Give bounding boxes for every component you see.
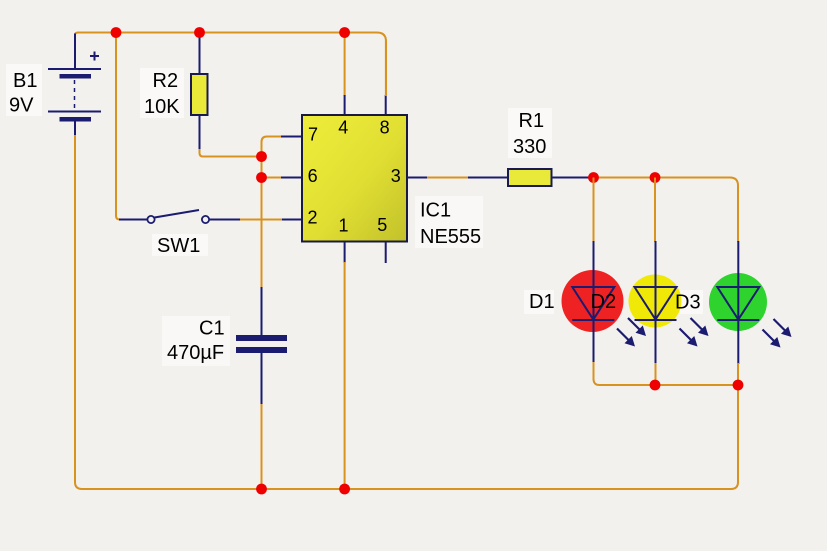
wire pin3 highlighted segment orange	[427, 177, 469, 179]
junction D3/LED rail	[733, 380, 744, 391]
capacitor plate bottom	[236, 347, 287, 353]
svg-text:C1: C1	[199, 318, 225, 340]
svg-text:R1: R1	[519, 110, 545, 132]
LED D1 diode triangle	[572, 287, 614, 320]
battery internal dashed line	[74, 80, 76, 110]
junction top rail / switch feed	[111, 27, 122, 38]
wire node column to pin7	[262, 137, 283, 159]
switch SW1	[119, 210, 302, 257]
switch pole circle	[147, 216, 154, 223]
svg-text:IC1: IC1	[420, 200, 451, 222]
LED D1 cathode bar	[572, 319, 614, 321]
resistor R1	[508, 110, 590, 186]
wire R2 bottom lead	[199, 115, 201, 150]
wire pin1 to bottom rail orange	[344, 262, 346, 489]
LED D2 body (yellow)	[629, 275, 682, 328]
wire top rail (V+)	[75, 33, 386, 96]
wire pin4 lead orange	[344, 33, 346, 96]
junction D2 feed	[650, 172, 661, 183]
svg-text:6: 6	[308, 166, 318, 186]
svg-text:D1: D1	[529, 291, 555, 313]
wire R2 to node (orange)	[200, 149, 259, 157]
wire left rail and bottom rail (ground return)	[75, 135, 738, 489]
wire pin8 lead navy	[385, 95, 387, 115]
wire pin3 to R1 navy	[468, 177, 508, 179]
junction D2/LED rail	[650, 380, 661, 391]
LED D3 arrows	[763, 330, 781, 348]
wire pin3 stub navy	[407, 177, 428, 179]
capacitor plate top	[236, 335, 287, 341]
wire D2 through-lead navy	[655, 241, 657, 364]
battery plate long bottom	[48, 111, 101, 113]
switch lever	[155, 210, 200, 218]
IC body	[302, 115, 407, 242]
wire to switch pole	[119, 219, 148, 221]
wire D1 through-lead navy	[593, 241, 595, 363]
wire pin1 lead navy	[344, 242, 346, 264]
wire R2 top lead	[199, 33, 201, 74]
wire D3 cathode orange	[737, 363, 739, 386]
svg-text:4: 4	[338, 118, 348, 138]
svg-text:R2: R2	[153, 70, 179, 92]
battery plate long top	[48, 68, 101, 70]
LED D3 cathode bar	[717, 319, 759, 321]
wire LED bottom rail	[599, 384, 738, 386]
resistor R1 body	[508, 169, 552, 186]
wire D1 cathode orange	[594, 362, 607, 385]
battery B1	[9, 34, 101, 137]
wire LED feed rail	[594, 178, 739, 243]
LED D3 body (green)	[709, 273, 767, 331]
label halo backgrounds	[6, 64, 703, 366]
wire C1 to bottom rail orange	[261, 404, 263, 489]
wire pin5 stub navy	[385, 242, 387, 264]
svg-text:D3: D3	[675, 292, 701, 314]
LED D2 diode triangle	[635, 287, 677, 320]
wire battery bottom lead	[74, 122, 76, 137]
svg-text:7: 7	[308, 125, 318, 145]
svg-text:SW1: SW1	[157, 235, 200, 257]
junction pin1/bottom rail	[339, 484, 350, 495]
wire R1 to node navy	[552, 177, 591, 179]
battery plate thick bottom	[60, 117, 92, 122]
IC U1 NE555	[302, 33, 481, 489]
wire switch to pin2 highlighted segment	[240, 219, 282, 221]
LED D2 arrows	[680, 329, 698, 347]
LED D1 arrows	[617, 329, 635, 347]
wire C1 bottom lead navy	[261, 353, 263, 405]
svg-text:1: 1	[338, 216, 348, 236]
switch throw circle	[202, 216, 209, 223]
wire pin6 stub orange	[262, 177, 283, 179]
resistor R2 body	[191, 74, 208, 115]
svg-text:9V: 9V	[9, 95, 34, 117]
battery plus sign	[90, 55, 99, 57]
capacitor C1	[167, 287, 287, 489]
junction node pin6	[256, 172, 267, 183]
wire battery top lead	[74, 34, 76, 70]
svg-text:B1: B1	[13, 70, 37, 92]
junction top rail / R2	[194, 27, 205, 38]
svg-text:8: 8	[380, 118, 390, 138]
wire pin4 lead navy	[344, 95, 346, 115]
svg-text:2: 2	[307, 208, 317, 228]
wire D1 anode orange	[593, 178, 595, 243]
svg-text:10K: 10K	[144, 96, 180, 118]
LED D3 diode triangle	[717, 287, 759, 320]
battery plate thick top	[60, 74, 92, 79]
wire node vertical down to C1	[261, 157, 263, 289]
LED D1 body (red)	[562, 270, 624, 332]
wire D2 anode orange	[654, 178, 656, 243]
svg-text:330: 330	[513, 136, 546, 158]
svg-text:NE555: NE555	[420, 226, 481, 248]
wire pin6 stub navy	[281, 177, 302, 179]
wire D3 through-lead navy	[737, 241, 739, 364]
LED D2 cathode bar	[635, 319, 677, 321]
wire C1 top lead navy	[261, 287, 263, 335]
resistor R2	[144, 33, 258, 157]
wire switch feed from top rail	[116, 33, 124, 220]
svg-text:5: 5	[377, 215, 387, 235]
svg-text:470µF: 470µF	[167, 342, 224, 364]
wire D2 cathode orange	[655, 363, 657, 385]
junction D1 feed	[588, 172, 599, 183]
wire switch to pin2 (navy)	[209, 219, 302, 221]
svg-text:3: 3	[391, 166, 401, 186]
wire pin7 stub (navy)	[281, 136, 302, 138]
junction C1/bottom rail	[256, 484, 267, 495]
junction node R2/pin7	[256, 151, 267, 162]
wire pin8 lead orange	[385, 41, 387, 96]
svg-text:D2: D2	[591, 291, 617, 313]
junction top rail / pin4	[339, 27, 350, 38]
